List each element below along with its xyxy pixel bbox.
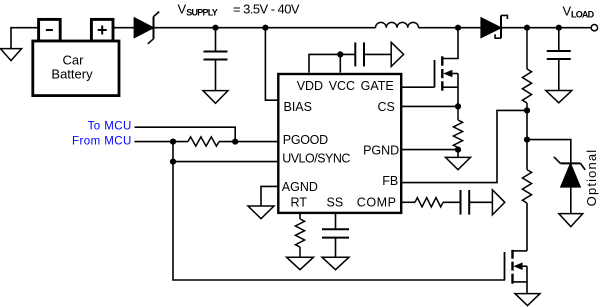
node output cap bbox=[556, 25, 562, 31]
svg-text:AGND: AGND bbox=[282, 180, 318, 194]
plus sign bbox=[98, 26, 107, 35]
wire To MCU bbox=[135, 127, 236, 141]
wire COMP pin bbox=[402, 201, 415, 203]
wire PGND pin bbox=[402, 149, 458, 151]
label V_LOAD bbox=[563, 4, 595, 20]
label Car Battery bbox=[51, 53, 93, 82]
wire PGOOD pin bbox=[219, 141, 278, 143]
wire divider middle bbox=[526, 140, 528, 170]
resistor R_cs bbox=[453, 106, 462, 149]
svg-text:To MCU: To MCU bbox=[88, 121, 132, 133]
zener diode D3 (Optional) bbox=[554, 157, 585, 214]
wire PGND to ground bbox=[457, 150, 459, 158]
svg-text:= 3.5V - 40V: = 3.5V - 40V bbox=[233, 1, 300, 16]
wire BIAS pin bbox=[265, 28, 277, 101]
wire output rail bbox=[501, 27, 591, 29]
diode D2 (Schottky rectifier) bbox=[481, 15, 507, 38]
wire FB node to zener node bbox=[526, 110, 528, 139]
svg-text:VCC: VCC bbox=[329, 79, 355, 93]
node zener branch bbox=[524, 137, 530, 143]
wire supply rail bbox=[154, 27, 376, 29]
resistor R_fb_bottom bbox=[522, 170, 531, 203]
svg-text:SUPPLY: SUPPLY bbox=[186, 8, 217, 18]
wire GATE pin bbox=[402, 86, 434, 88]
capacitor C_in bbox=[204, 28, 228, 91]
wire UVLO/SYNC pin bbox=[173, 161, 278, 163]
wire R_comp to C_comp bbox=[443, 201, 461, 203]
svg-text:GATE: GATE bbox=[361, 79, 394, 93]
svg-text:RT: RT bbox=[291, 196, 308, 210]
node PGOOD bbox=[232, 139, 238, 145]
node From MCU bbox=[170, 139, 176, 145]
resistor R_pgood (pull-up) bbox=[188, 137, 219, 146]
svg-text:VDD: VDD bbox=[297, 79, 323, 93]
svg-text:PGND: PGND bbox=[363, 143, 399, 157]
ground (PGND) bbox=[446, 157, 471, 169]
IC U1 bbox=[278, 74, 401, 213]
wire RT pin bbox=[299, 213, 301, 219]
capacitor C_comp bbox=[461, 190, 493, 215]
svg-text:PGOOD: PGOOD bbox=[283, 133, 328, 147]
battery positive terminal bbox=[91, 19, 113, 41]
transistor Q1 (boost switch) bbox=[435, 28, 459, 107]
ground (output cap) bbox=[546, 91, 572, 103]
node FB divider top bbox=[524, 25, 530, 31]
off-page arrow (COMP) bbox=[492, 190, 504, 215]
wire AGND pin bbox=[261, 186, 278, 206]
wire VDD VCC bootstrap bbox=[309, 54, 355, 72]
capacitor C_boot bbox=[355, 42, 391, 66]
svg-text:BIAS: BIAS bbox=[284, 100, 313, 114]
inductor L1 bbox=[376, 22, 419, 27]
resistor R_comp bbox=[415, 198, 443, 207]
node VCC bbox=[337, 51, 343, 57]
wire FB pin bbox=[402, 110, 527, 182]
svg-text:Car: Car bbox=[63, 53, 85, 68]
wire zener branch bbox=[527, 140, 571, 164]
svg-text:From MCU: From MCU bbox=[72, 135, 132, 147]
svg-text:Battery: Battery bbox=[51, 67, 93, 82]
ground (SS) bbox=[322, 257, 349, 270]
transistor Q2 (load disconnect) bbox=[505, 250, 528, 294]
terminal V_LOAD bbox=[591, 25, 597, 31]
ground (battery negative) bbox=[0, 49, 21, 61]
resistor R_rt bbox=[295, 219, 304, 257]
svg-text:V: V bbox=[178, 1, 187, 16]
wire VCC pin bbox=[339, 54, 341, 72]
wire From MCU bbox=[135, 141, 189, 143]
node CS bbox=[455, 103, 461, 109]
node switch bbox=[455, 25, 461, 31]
wire battery negative to ground bbox=[11, 28, 39, 49]
minus sign bbox=[46, 29, 53, 31]
wire CS pin bbox=[402, 105, 458, 107]
node BIAS bbox=[262, 25, 268, 31]
wire inductor to diode D2 bbox=[419, 27, 482, 29]
node input cap bbox=[212, 25, 218, 31]
label V_SUPPLY bbox=[178, 1, 300, 17]
ground (zener) bbox=[559, 214, 583, 227]
wire MCU enable to Q2 gate bbox=[173, 142, 505, 280]
battery negative terminal bbox=[39, 19, 61, 41]
node FB bbox=[524, 107, 530, 113]
svg-text:Optional: Optional bbox=[584, 149, 599, 207]
capacitor C_ss bbox=[322, 229, 349, 257]
svg-text:FB: FB bbox=[382, 174, 398, 188]
ground (Q2 source) bbox=[515, 294, 540, 306]
node PGND bbox=[455, 147, 461, 153]
diode D1 (input reverse protection) bbox=[134, 12, 159, 44]
svg-text:CS: CS bbox=[378, 100, 395, 114]
ground (AGND) bbox=[248, 206, 274, 219]
node UVLO bbox=[170, 159, 176, 165]
resistor R_fb_top bbox=[522, 28, 531, 111]
off-page arrow (bootstrap) bbox=[391, 42, 403, 66]
ground (RT) bbox=[287, 257, 314, 270]
wire battery positive to diode D1 bbox=[113, 27, 134, 29]
ground (input cap) bbox=[203, 91, 228, 104]
wire SS pin bbox=[335, 213, 337, 229]
svg-text:LOAD: LOAD bbox=[571, 9, 595, 19]
battery body (Car Battery) bbox=[33, 41, 119, 96]
capacitor C_out bbox=[547, 28, 571, 91]
svg-text:UVLO/SYNC: UVLO/SYNC bbox=[282, 151, 350, 165]
svg-text:SS: SS bbox=[327, 196, 344, 210]
wire R_fb_bottom to Q2 drain bbox=[526, 203, 528, 251]
svg-text:COMP: COMP bbox=[357, 196, 397, 210]
